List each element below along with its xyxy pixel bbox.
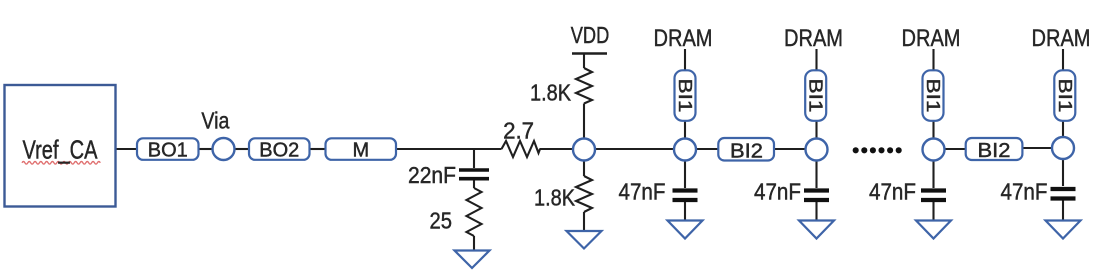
svg-text:1.8K: 1.8K [530, 80, 572, 106]
svg-text:BI2: BI2 [730, 141, 763, 163]
svg-text:25: 25 [430, 208, 453, 234]
svg-text:BO2: BO2 [259, 139, 299, 161]
svg-text:DRAM: DRAM [784, 25, 843, 52]
svg-text:M: M [352, 139, 369, 161]
svg-text:2.7: 2.7 [503, 118, 534, 144]
svg-text:47nF: 47nF [619, 179, 666, 205]
svg-text:Vref_CA: Vref_CA [23, 135, 99, 165]
svg-text:47nF: 47nF [754, 179, 801, 205]
svg-text:47nF: 47nF [869, 179, 916, 205]
svg-text:BI1: BI1 [1055, 79, 1075, 113]
svg-text:DRAM: DRAM [654, 25, 713, 52]
svg-text:VDD: VDD [571, 22, 610, 48]
svg-text:DRAM: DRAM [902, 25, 961, 52]
svg-text:BO1: BO1 [148, 139, 188, 161]
svg-text:BI1: BI1 [675, 79, 695, 113]
svg-text:BI2: BI2 [978, 140, 1011, 162]
svg-text:BI1: BI1 [923, 79, 943, 113]
svg-text:47nF: 47nF [1001, 179, 1048, 205]
svg-text:BI1: BI1 [806, 79, 826, 113]
svg-text:22nF: 22nF [408, 162, 456, 188]
svg-text:1.8K: 1.8K [534, 185, 576, 211]
svg-text:Via: Via [201, 108, 229, 134]
svg-text:DRAM: DRAM [1032, 25, 1091, 52]
